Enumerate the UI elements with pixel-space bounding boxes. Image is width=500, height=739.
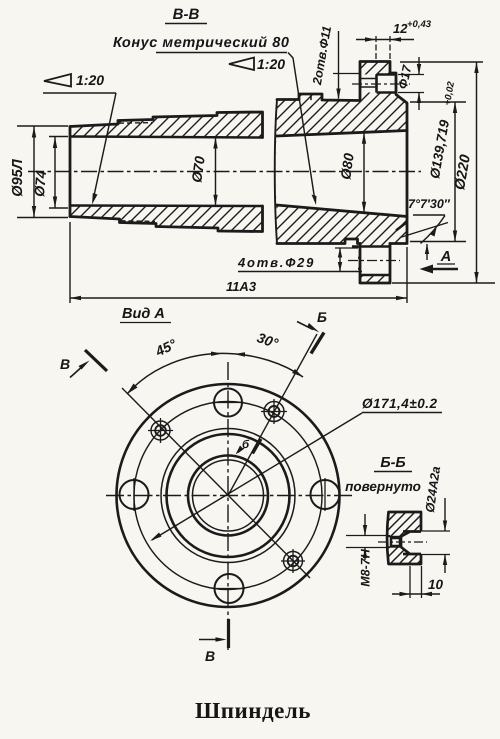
dimension 2otv D11 <box>310 25 361 100</box>
dimension D24A2a <box>421 465 450 573</box>
tube top wall hatch <box>70 112 263 138</box>
svg-text:12: 12 <box>393 21 408 36</box>
angle 7d7m30s callout <box>400 197 451 260</box>
angle dimension arc 45 and 30 <box>127 353 303 394</box>
svg-text:+0,43: +0,43 <box>407 19 432 30</box>
svg-text:Ø80: Ø80 <box>337 152 357 181</box>
front view centerline horizontal <box>106 495 352 497</box>
section mark B top-right <box>297 309 327 354</box>
bolt circle <box>134 402 322 590</box>
label Konus metricheskiy 80 <box>113 35 290 53</box>
dimension D80 bore <box>337 133 366 213</box>
M8 hole lower-right <box>281 549 305 573</box>
svg-text:7°7′30″: 7°7′30″ <box>408 197 451 211</box>
section mark V bottom <box>199 619 229 664</box>
front view 45deg diagonal <box>122 388 310 578</box>
front view 30deg line to section B-B trace <box>228 334 317 496</box>
detail section title B-B <box>345 455 421 494</box>
view arrow A <box>420 249 459 274</box>
bore chamfer circle <box>193 460 264 531</box>
svg-text:Ф17: Ф17 <box>396 63 415 90</box>
dimension D139.719 <box>410 80 466 241</box>
shaft centerline <box>28 171 421 173</box>
bolt hole bottom <box>213 574 245 603</box>
svg-text:В: В <box>60 356 70 372</box>
dimension D171.4 with leader <box>150 396 442 541</box>
bolt hole top <box>212 389 244 417</box>
dimension M8-7H <box>346 514 390 587</box>
small b label with leader <box>236 439 251 455</box>
dimension 11A3 length <box>70 222 407 303</box>
svg-text:1:20: 1:20 <box>257 56 285 72</box>
flange taper chamfer lines <box>396 222 407 231</box>
section view B-B: title <box>165 6 207 24</box>
arc arrowheads <box>127 352 303 395</box>
thread dashes on tube bands <box>119 122 152 125</box>
section mark V top-left <box>60 350 107 378</box>
svg-text:Б-Б: Б-Б <box>380 455 405 471</box>
dimension D70 bore <box>188 138 217 206</box>
svg-text:Конус метрический 80: Конус метрический 80 <box>113 35 290 51</box>
pilot circle thick <box>167 434 290 557</box>
svg-text:30°: 30° <box>255 329 281 351</box>
svg-text:М8-7Н: М8-7Н <box>359 548 373 586</box>
tube outline <box>70 112 263 232</box>
dimension D17 <box>396 57 424 110</box>
svg-text:Б: Б <box>317 309 327 325</box>
svg-text:1:20: 1:20 <box>76 72 104 88</box>
svg-text:Ø24А2а: Ø24А2а <box>423 465 443 513</box>
dimension 10 <box>392 566 444 598</box>
front view centerline vertical <box>227 362 229 650</box>
ear hole 2x D11/D17 <box>352 75 410 93</box>
svg-text:45°: 45° <box>152 335 179 359</box>
section trace thick segment on 30deg line <box>253 439 262 454</box>
M8 hole upper-right on 30deg <box>261 399 287 424</box>
svg-text:4отв.Ф29: 4отв.Ф29 <box>237 255 315 270</box>
dimension 12+0.43 <box>356 19 432 60</box>
dimension D74 left <box>31 137 68 209</box>
view label Vid A <box>120 306 171 323</box>
svg-text:Ø70: Ø70 <box>188 155 208 184</box>
bolt hole right <box>311 478 340 511</box>
svg-text:Вид А: Вид А <box>122 306 165 322</box>
flange body hatch <box>276 62 407 284</box>
dimension 4otv D29 <box>237 248 362 272</box>
outer flange circle <box>117 384 340 607</box>
svg-text:В-В: В-В <box>173 6 200 23</box>
dimension D220 <box>392 62 495 283</box>
pilot taper circle thin <box>161 429 295 563</box>
M8 hole upper-left <box>148 418 173 443</box>
svg-text:повернуто: повернуто <box>345 479 421 494</box>
detail block outline <box>387 512 421 564</box>
svg-text:Ø74: Ø74 <box>31 169 49 197</box>
svg-text:10: 10 <box>428 577 444 592</box>
svg-text:Ø171,4±0.2: Ø171,4±0.2 <box>362 396 437 411</box>
M8 thread in detail <box>378 537 427 548</box>
bolt hole left <box>120 478 149 511</box>
svg-text:Ø95Л: Ø95Л <box>10 158 26 196</box>
svg-text:В: В <box>205 648 215 664</box>
bore circle thick <box>188 456 268 536</box>
dimension D95L left <box>10 126 68 218</box>
bolt hole D29 in lower tab <box>348 247 400 276</box>
tube bottom wall hatch <box>70 206 263 232</box>
svg-text:2отв.Ф11: 2отв.Ф11 <box>310 25 334 87</box>
taper flag 1:20 right with leader to bore <box>229 53 317 206</box>
taper flag 1:20 left with leader to bore <box>43 72 116 205</box>
svg-text:Ø139,719: Ø139,719 <box>427 118 452 179</box>
svg-text:А: А <box>440 249 451 265</box>
flange outline <box>275 62 407 284</box>
detail block hatch <box>388 512 421 564</box>
svg-text:11А3: 11А3 <box>226 279 257 294</box>
svg-text:Шпиндель: Шпиндель <box>195 698 311 723</box>
